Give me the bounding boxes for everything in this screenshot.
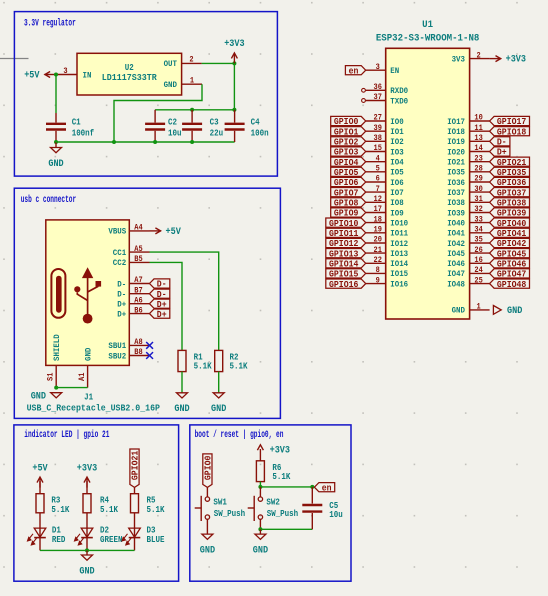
svg-text:21: 21: [374, 246, 383, 255]
svg-text:29: 29: [474, 175, 483, 184]
svg-text:GPIO38: GPIO38: [497, 199, 526, 209]
svg-text:+3V3: +3V3: [77, 462, 97, 473]
svg-text:25: 25: [474, 276, 483, 285]
svg-text:LD1117S33TR: LD1117S33TR: [102, 72, 157, 83]
svg-text:10u: 10u: [168, 127, 182, 138]
svg-text:IO13: IO13: [390, 249, 408, 259]
svg-text:GPIO7: GPIO7: [334, 188, 359, 198]
svg-text:GPIO4: GPIO4: [334, 158, 359, 168]
svg-text:GPIO39: GPIO39: [497, 209, 526, 219]
svg-text:IO45: IO45: [447, 249, 465, 259]
svg-text:1: 1: [190, 77, 194, 86]
svg-text:GPIO13: GPIO13: [329, 249, 358, 259]
svg-text:A6: A6: [134, 296, 143, 305]
svg-text:GPIO35: GPIO35: [497, 168, 526, 178]
svg-text:SW_Push: SW_Push: [267, 508, 299, 519]
svg-text:GND: GND: [200, 544, 215, 555]
svg-text:en: en: [349, 66, 359, 76]
svg-text:6: 6: [376, 175, 380, 184]
svg-text:32: 32: [474, 205, 483, 214]
svg-text:GPIO1: GPIO1: [334, 127, 359, 137]
svg-text:28: 28: [474, 165, 483, 174]
svg-text:SBU2: SBU2: [108, 351, 126, 361]
svg-text:5.1K: 5.1K: [272, 471, 290, 482]
svg-text:IO35: IO35: [447, 168, 465, 178]
svg-text:C2: C2: [168, 116, 177, 127]
svg-text:7: 7: [376, 185, 380, 194]
svg-text:IO9: IO9: [390, 208, 403, 218]
svg-text:22u: 22u: [210, 127, 224, 138]
svg-text:3.3V regulator: 3.3V regulator: [24, 18, 76, 29]
svg-text:boot / reset | gpio0, en: boot / reset | gpio0, en: [195, 429, 284, 440]
svg-text:IO39: IO39: [447, 208, 465, 218]
svg-text:IO1: IO1: [390, 127, 403, 137]
svg-text:5.1K: 5.1K: [147, 504, 165, 515]
svg-text:GPIO9: GPIO9: [334, 209, 359, 219]
svg-text:+3V3: +3V3: [224, 38, 244, 49]
svg-text:IO19: IO19: [447, 137, 465, 147]
svg-text:1: 1: [477, 303, 481, 312]
svg-text:C4: C4: [251, 116, 260, 127]
svg-text:D-: D-: [497, 138, 507, 148]
svg-text:9: 9: [376, 276, 380, 285]
svg-text:GPIO42: GPIO42: [497, 239, 526, 249]
svg-text:B5: B5: [134, 255, 143, 264]
svg-text:GPIO48: GPIO48: [497, 280, 526, 290]
svg-text:RXD0: RXD0: [390, 86, 408, 96]
svg-text:S1: S1: [47, 372, 56, 381]
svg-text:SW2: SW2: [266, 496, 280, 507]
svg-text:22: 22: [374, 256, 383, 265]
svg-text:GPIO6: GPIO6: [334, 178, 359, 188]
svg-text:IO16: IO16: [390, 279, 408, 289]
svg-text:D+: D+: [497, 148, 507, 158]
svg-text:12: 12: [374, 195, 383, 204]
svg-text:IN: IN: [83, 70, 92, 80]
svg-text:D-: D-: [157, 280, 167, 290]
svg-text:GPIO15: GPIO15: [329, 270, 358, 280]
svg-text:27: 27: [374, 114, 383, 123]
svg-text:D+: D+: [157, 310, 167, 320]
svg-text:indicator LED | gpio 21: indicator LED | gpio 21: [24, 429, 109, 440]
svg-text:A7: A7: [134, 276, 143, 285]
svg-text:J1: J1: [84, 391, 93, 402]
svg-text:39: 39: [374, 124, 383, 133]
svg-text:5: 5: [376, 165, 380, 174]
svg-text:TXD0: TXD0: [390, 96, 408, 106]
svg-text:5.1K: 5.1K: [100, 504, 118, 515]
svg-text:GPIO47: GPIO47: [497, 270, 526, 280]
svg-text:+3V3: +3V3: [270, 445, 290, 456]
svg-text:10u: 10u: [329, 509, 343, 520]
svg-text:IO18: IO18: [447, 127, 465, 137]
svg-text:A4: A4: [134, 224, 143, 233]
svg-text:GPIO11: GPIO11: [329, 229, 359, 239]
svg-text:D+: D+: [117, 300, 126, 310]
svg-text:D-: D-: [157, 290, 167, 300]
svg-text:2: 2: [477, 51, 481, 60]
svg-text:17: 17: [374, 205, 383, 214]
svg-text:OUT: OUT: [164, 59, 177, 69]
svg-text:USB_C_Receptacle_USB2.0_16P: USB_C_Receptacle_USB2.0_16P: [27, 403, 160, 413]
svg-text:35: 35: [474, 236, 483, 245]
svg-text:100nf: 100nf: [72, 127, 95, 138]
svg-text:IO46: IO46: [447, 259, 465, 269]
svg-text:SHIELD: SHIELD: [52, 334, 62, 361]
svg-text:en: en: [322, 483, 332, 493]
svg-text:GPIO36: GPIO36: [497, 178, 526, 188]
svg-text:34: 34: [474, 226, 483, 235]
svg-text:ESP32-S3-WROOM-1-N8: ESP32-S3-WROOM-1-N8: [376, 32, 480, 44]
svg-text:RED: RED: [52, 534, 66, 545]
svg-text:GND: GND: [452, 306, 465, 316]
svg-text:IO41: IO41: [447, 229, 465, 239]
svg-text:GPIO40: GPIO40: [497, 219, 526, 229]
svg-text:IO8: IO8: [390, 198, 403, 208]
svg-text:GPIO45: GPIO45: [497, 249, 526, 259]
svg-text:30: 30: [474, 185, 483, 194]
svg-text:IO36: IO36: [447, 178, 465, 188]
svg-text:IO17: IO17: [447, 117, 465, 127]
svg-text:IO11: IO11: [390, 229, 408, 239]
svg-text:GPIO37: GPIO37: [497, 188, 526, 198]
svg-text:GPIO0: GPIO0: [334, 117, 359, 127]
svg-text:3V3: 3V3: [452, 54, 465, 64]
svg-text:IO20: IO20: [447, 147, 465, 157]
svg-text:A8: A8: [134, 338, 143, 347]
svg-text:11: 11: [474, 124, 483, 133]
svg-text:13: 13: [474, 134, 483, 143]
svg-text:GPIO2: GPIO2: [334, 138, 359, 148]
svg-text:GPIO17: GPIO17: [497, 117, 526, 127]
svg-text:GND: GND: [79, 565, 94, 576]
svg-text:VBUS: VBUS: [108, 227, 126, 237]
svg-text:3: 3: [376, 63, 380, 72]
svg-text:IO40: IO40: [447, 218, 465, 228]
svg-text:GND: GND: [253, 544, 268, 555]
svg-text:BLUE: BLUE: [147, 534, 165, 545]
svg-text:usb c connector: usb c connector: [21, 194, 77, 205]
svg-text:CC1: CC1: [113, 248, 126, 258]
svg-text:GND: GND: [174, 403, 189, 414]
svg-text:B7: B7: [134, 286, 143, 295]
svg-text:SBU1: SBU1: [108, 341, 126, 351]
svg-text:2: 2: [189, 56, 193, 65]
svg-text:IO3: IO3: [390, 147, 403, 157]
svg-text:C1: C1: [72, 116, 81, 127]
svg-text:8: 8: [376, 266, 380, 275]
svg-text:4: 4: [376, 154, 380, 163]
svg-text:IO0: IO0: [390, 117, 403, 127]
svg-text:23: 23: [474, 154, 483, 163]
svg-text:5.1K: 5.1K: [230, 361, 248, 372]
svg-text:IO21: IO21: [447, 158, 465, 168]
svg-text:A5: A5: [134, 245, 143, 254]
svg-text:B6: B6: [134, 306, 143, 315]
svg-text:16: 16: [474, 256, 483, 265]
svg-text:18: 18: [374, 215, 383, 224]
svg-text:+3V3: +3V3: [506, 54, 526, 65]
svg-text:24: 24: [474, 266, 483, 275]
svg-text:B8: B8: [134, 348, 143, 357]
svg-text:+5V: +5V: [166, 226, 181, 237]
svg-text:+5V: +5V: [32, 462, 47, 473]
svg-text:GPIO16: GPIO16: [329, 280, 358, 290]
svg-text:IO5: IO5: [390, 168, 403, 178]
svg-text:SW_Push: SW_Push: [214, 508, 246, 519]
svg-text:IO10: IO10: [390, 218, 408, 228]
svg-text:GPIO14: GPIO14: [329, 260, 359, 270]
svg-text:IO42: IO42: [447, 239, 465, 249]
svg-text:U1: U1: [422, 19, 433, 31]
svg-text:IO2: IO2: [390, 137, 403, 147]
svg-text:GPIO3: GPIO3: [334, 148, 359, 158]
svg-text:36: 36: [374, 83, 383, 92]
svg-text:IO48: IO48: [447, 279, 465, 289]
svg-text:38: 38: [374, 134, 383, 143]
svg-text:20: 20: [374, 236, 383, 245]
svg-text:IO37: IO37: [447, 188, 465, 198]
svg-text:15: 15: [374, 144, 383, 153]
svg-text:26: 26: [474, 246, 483, 255]
svg-text:GND: GND: [211, 403, 226, 414]
svg-text:D-: D-: [117, 290, 126, 300]
svg-text:IO12: IO12: [390, 239, 408, 249]
svg-text:14: 14: [474, 144, 483, 153]
svg-text:C3: C3: [210, 116, 219, 127]
svg-text:IO38: IO38: [447, 198, 465, 208]
svg-text:GPIO41: GPIO41: [497, 229, 527, 239]
svg-text:GPIO21: GPIO21: [131, 450, 141, 480]
svg-text:IO4: IO4: [390, 158, 403, 168]
svg-text:GND: GND: [31, 391, 46, 402]
svg-text:GPIO12: GPIO12: [329, 239, 358, 249]
svg-text:GPIO18: GPIO18: [497, 127, 526, 137]
svg-text:31: 31: [474, 195, 483, 204]
svg-text:GND: GND: [164, 80, 177, 90]
svg-text:IO15: IO15: [390, 269, 408, 279]
svg-text:GND: GND: [48, 158, 63, 169]
svg-text:GPIO0: GPIO0: [204, 456, 214, 481]
svg-text:IO7: IO7: [390, 188, 403, 198]
svg-text:CC2: CC2: [113, 258, 126, 268]
svg-text:GPIO46: GPIO46: [497, 260, 526, 270]
svg-text:IO6: IO6: [390, 178, 403, 188]
svg-text:10: 10: [474, 114, 483, 123]
svg-text:SW1: SW1: [213, 496, 227, 507]
svg-text:IO47: IO47: [447, 269, 465, 279]
svg-text:33: 33: [474, 215, 483, 224]
svg-text:GPIO21: GPIO21: [497, 158, 527, 168]
svg-text:GND: GND: [84, 348, 94, 361]
svg-text:D-: D-: [117, 279, 126, 289]
svg-text:GREEN: GREEN: [100, 534, 123, 545]
svg-text:100n: 100n: [251, 127, 269, 138]
svg-text:GND: GND: [507, 305, 522, 316]
svg-text:+5V: +5V: [24, 70, 39, 81]
svg-text:GPIO5: GPIO5: [334, 168, 359, 178]
svg-text:19: 19: [374, 226, 383, 235]
svg-text:D+: D+: [117, 309, 126, 319]
svg-text:5.1K: 5.1K: [51, 504, 69, 515]
svg-text:GPIO10: GPIO10: [329, 219, 358, 229]
svg-text:5.1K: 5.1K: [194, 361, 212, 372]
svg-text:A1: A1: [78, 372, 87, 381]
svg-text:GPIO8: GPIO8: [334, 199, 359, 209]
svg-text:3: 3: [63, 67, 67, 76]
svg-text:IO14: IO14: [390, 259, 408, 269]
svg-text:37: 37: [374, 93, 383, 102]
svg-text:EN: EN: [390, 66, 399, 76]
